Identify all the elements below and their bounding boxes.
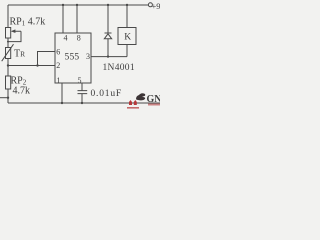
wire pin1 to bottom rail: [61, 83, 63, 103]
svg-text:8: 8: [77, 34, 81, 43]
svg-text:1N4001: 1N4001: [103, 63, 135, 73]
background paper: [0, 0, 160, 110]
potentiometer RP1 body: [6, 28, 11, 39]
wire pin5 to capacitor: [81, 83, 83, 91]
wire pin3 output run: [91, 56, 127, 58]
wire diode top from rail: [107, 5, 109, 33]
svg-text:555: 555: [65, 52, 80, 62]
svg-text:GN: GN: [147, 94, 161, 105]
resistor RP2 body: [6, 76, 11, 89]
wire capacitor bottom to rail: [81, 94, 83, 103]
wire relay bottom riser: [126, 45, 128, 57]
svg-text:6: 6: [56, 48, 60, 57]
node dot pin8 on rail: [76, 4, 78, 6]
wire Tr bottom through node to RP2 top: [7, 59, 9, 77]
svg-text:RP1 4.7k: RP1 4.7k: [10, 16, 46, 27]
wire left rail upper segment: [7, 5, 9, 28]
node dot Tr RP2 pin2 junction: [7, 64, 9, 66]
watermark red figure 1: [129, 100, 132, 105]
node dot diode pin3 junction: [107, 55, 109, 57]
node dot capacitor on bottom rail: [81, 102, 83, 104]
wire RP2 bottom to bottom rail: [7, 89, 9, 103]
wire pin2 to left node: [8, 65, 55, 67]
op 555 timer IC U1 box: [55, 33, 91, 83]
watermark red figure 2: [134, 100, 137, 105]
capacitor C 0.01uF plates: [78, 91, 88, 94]
wire top +9V rail: [8, 4, 148, 6]
wire bottom ground rail: [8, 102, 160, 104]
thermistor Tr diagonal strike: [2, 44, 14, 61]
svg-text:+9V: +9V: [152, 1, 161, 11]
svg-text:4.7k: 4.7k: [13, 86, 31, 97]
svg-text:K: K: [124, 33, 131, 43]
watermark small red url text: [127, 107, 139, 109]
relay K box: [118, 28, 136, 45]
wire pin8 from top rail: [76, 5, 78, 33]
node dot left stub junction: [7, 97, 9, 99]
wire left stub going off-canvas: [0, 97, 8, 99]
diode VD 1N4001 triangle: [104, 34, 111, 39]
svg-text:0.01uF: 0.01uF: [91, 89, 122, 99]
wire pin6 stub and drop to pin2 wire: [38, 52, 56, 66]
svg-text:1: 1: [57, 76, 61, 85]
node dot pin4 on rail: [62, 4, 64, 6]
node dot diode on rail: [107, 4, 109, 6]
watermark bird glyph: [136, 93, 145, 100]
potentiometer RP1 wiper arm: [8, 31, 21, 41]
potentiometer RP1 wiper arrowhead: [11, 29, 16, 33]
thermistor Tr body: [6, 48, 11, 59]
svg-text:2: 2: [56, 61, 60, 70]
node dot relay on rail: [126, 4, 128, 6]
diode VD 1N4001 cathode bar: [105, 32, 112, 34]
node dot wiper rejoin: [7, 41, 9, 43]
watermark small red right text: [148, 104, 160, 106]
svg-text:TR: TR: [14, 49, 25, 60]
terminal +9V circle: [148, 3, 152, 7]
wire diode anode to pin3 wire: [107, 39, 109, 57]
node dot pin6 drop junction: [36, 64, 38, 66]
svg-text:5: 5: [78, 76, 82, 85]
svg-text:4: 4: [64, 34, 68, 43]
svg-text:3: 3: [86, 52, 90, 61]
wire RP1 bottom to Tr top: [7, 38, 9, 48]
wire pin4 from top rail: [62, 5, 64, 33]
node dot pin1 on bottom rail: [61, 102, 63, 104]
wire relay top from rail: [126, 5, 128, 28]
